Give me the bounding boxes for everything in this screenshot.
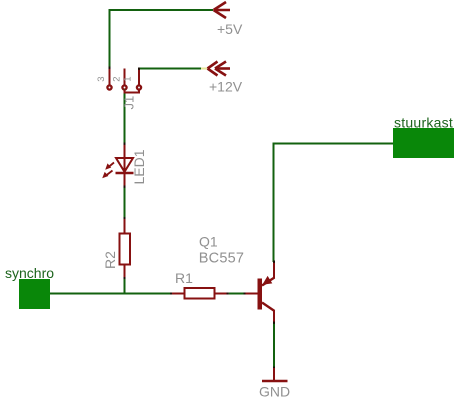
supply symbol +12V [208,62,231,76]
junction dot LED bottom [124,186,126,188]
svg-text:BC557: BC557 [199,250,244,266]
wire R2 to node [124,279,126,295]
LED1 triangle [116,158,133,172]
svg-text:GND: GND [259,384,290,400]
junction dot pin1 top [138,68,140,70]
wire collector to GND [273,324,275,369]
resistor R2 top lead [124,219,126,234]
connector J1 pin 1 [137,69,141,90]
junction dot emitter top [273,261,275,263]
wire net +5V top [110,10,214,68]
net flag box synchro [19,279,50,309]
resistor R1 body [185,288,215,299]
LED1 cathode bar [116,172,134,174]
junction dot R2 top [124,217,126,219]
LED1 vertical through line [124,157,126,187]
net flag box stuurkast [393,128,454,158]
wire from pin2 down [124,89,126,144]
LED1 emission arrow upper [105,163,114,170]
link pins 1-2 of J1 [125,90,140,93]
svg-text:J1: J1 [122,96,137,110]
svg-text:3: 3 [96,76,107,81]
junction dot GND top [273,367,275,369]
transistor Q1 emitter lead [273,262,275,279]
resistor R1 right lead [215,293,228,295]
svg-text:+5V: +5V [217,21,243,37]
junction dot R1 right [227,293,229,295]
supply symbol +5V [214,2,231,18]
wire stuurkast net [274,144,394,263]
svg-text:synchro: synchro [5,265,54,281]
resistor R1 left lead [172,293,185,295]
junction dot pin3 top [109,67,111,69]
transistor Q1 base bar [258,279,263,310]
yellow pin stub +12V [201,68,207,70]
LED1 anode lead [124,144,126,157]
connector J1 pin 2 [122,69,126,90]
LED1 emission arrow lower [102,171,112,179]
junction dot LED top [124,143,126,145]
svg-text:LED1: LED1 [131,149,147,184]
svg-text:R2: R2 [102,251,118,269]
transistor Q1 collector diagonal [262,303,275,312]
transistor Q1 collector lead [273,310,275,323]
svg-text:2: 2 [112,76,123,81]
wire net +12V [140,68,201,70]
transistor Q1 base lead [246,293,258,295]
resistor R2 bottom lead [124,265,126,279]
svg-text:+12V: +12V [209,79,243,95]
svg-text:Q1: Q1 [199,234,218,250]
junction dot collector bottom [273,322,275,324]
connector J1 pin 3 [107,68,111,90]
ground symbol bar [262,380,288,383]
junction dot R2 bottom [124,277,126,279]
resistor R2 body [120,234,131,265]
wire R1 to Q1 base [229,293,244,295]
junction dot R1 left [170,293,172,295]
ground symbol lead [273,368,275,380]
wire LED to R2 [124,187,126,218]
transistor Q1 emitter arrow [262,276,272,285]
transistor Q1 emitter diagonal [262,278,275,286]
svg-text:1: 1 [123,76,134,81]
wire main horizontal from synchro [50,293,171,295]
junction dot Q1 base [244,293,246,295]
svg-text:R1: R1 [175,270,193,286]
